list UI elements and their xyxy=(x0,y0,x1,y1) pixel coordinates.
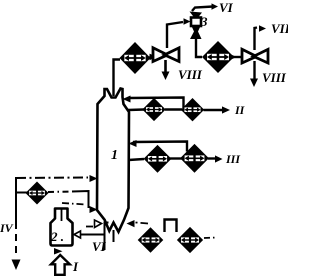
exchanger E3 (row II diamond 1) xyxy=(142,98,165,121)
arrow: pumparound II return into column top xyxy=(123,96,131,103)
wire: vessel 2 vapour dash-dot xyxy=(62,203,86,205)
wire: E7 dash-dot to column lower inlet xyxy=(48,191,72,194)
exchanger E8 (bottom diamond 1) xyxy=(138,227,164,253)
exchanger E7 (left diamond) xyxy=(25,181,48,204)
wire: II draw line xyxy=(128,108,144,111)
arrow: IV down xyxy=(12,260,21,271)
svg-text:VII: VII xyxy=(271,21,288,36)
svg-text:VIII: VIII xyxy=(262,70,287,85)
ejector 3 xyxy=(190,12,203,40)
exchanger E4 (row II diamond 2) xyxy=(181,98,204,121)
svg-text:1: 1 xyxy=(111,148,118,163)
exchanger E9 (bottom diamond 2) xyxy=(177,227,203,253)
wire: valve V1 drain down xyxy=(164,60,167,73)
arrow: open arrowhead into column bottom xyxy=(95,220,102,228)
wire: ejector discharge to VI, with arrow xyxy=(192,7,213,12)
svg-text:VIII: VIII xyxy=(178,67,203,82)
arrow: small outlet below vessel 2 xyxy=(54,248,63,255)
wire: dash-dot right of reboiler arrow xyxy=(136,223,149,224)
wire: stream VI into vessel 2 xyxy=(79,234,105,236)
arrow into ejector xyxy=(184,18,191,25)
valve V1 xyxy=(153,48,179,62)
arrow: reboiler return into column bottom xyxy=(127,220,135,227)
valve V2 xyxy=(242,49,268,63)
svg-text:III: III xyxy=(225,152,241,166)
wire: jog between bottom diamonds xyxy=(165,220,177,233)
svg-text:I: I xyxy=(72,259,79,274)
wire: bottom outlet stub xyxy=(113,230,115,242)
arrow: drain VIII right xyxy=(250,79,258,88)
wire: valve V2 drain down xyxy=(253,61,255,80)
vessel 2 outline xyxy=(51,209,73,246)
wire: ejector bottom to condenser E2 xyxy=(196,39,202,57)
arrow: open arrowhead into vessel 2 xyxy=(74,231,81,238)
wire: to product III with arrow xyxy=(208,157,216,159)
wire: dash-dot right of bottom row xyxy=(204,237,217,240)
wire: VI bracket xyxy=(105,223,109,251)
column 1 outline xyxy=(97,89,129,232)
arrow: feed I block arrow xyxy=(51,255,70,275)
condenser E2 (top diamond 2) xyxy=(202,41,234,73)
svg-text:IV: IV xyxy=(0,221,14,235)
exchanger E5 (row III diamond 1) xyxy=(144,145,172,173)
wire: IV vertical line xyxy=(15,177,17,222)
arrow: pumparound III return into column xyxy=(129,140,137,147)
wire: stream IV dash-dot feed into column xyxy=(16,177,88,180)
exchanger E6 (row III diamond 2) xyxy=(180,144,209,173)
arrow: drain VIII left xyxy=(162,72,170,81)
wire: valve V1 top to ejector xyxy=(167,22,183,48)
wire: column overhead vapour line xyxy=(114,60,121,97)
svg-text:II: II xyxy=(234,103,246,117)
svg-text:2 .: 2 . xyxy=(50,229,64,244)
wire: to exchanger E7 xyxy=(17,192,27,194)
wire: III draw line xyxy=(129,159,145,160)
svg-text:VI: VI xyxy=(92,239,107,254)
condenser E1 (top diamond 1) xyxy=(119,42,150,74)
wire: III return line xyxy=(133,142,187,152)
wire: dash into column bottom left xyxy=(86,226,93,228)
wire: between row III diamonds xyxy=(170,157,182,159)
vessel 2 internal pipe xyxy=(61,209,63,221)
wire: to product II with arrow xyxy=(204,109,225,111)
wire: II return line xyxy=(129,98,184,109)
svg-text:VI: VI xyxy=(219,0,234,15)
wire: between row II diamonds xyxy=(165,108,182,110)
wire: E2 to valve V2, with arrow xyxy=(233,56,241,58)
wire: E1 to valve, with arrow xyxy=(149,57,155,58)
svg-text:3: 3 xyxy=(200,14,208,29)
wire: valve V2 top vent to VII xyxy=(255,28,258,51)
